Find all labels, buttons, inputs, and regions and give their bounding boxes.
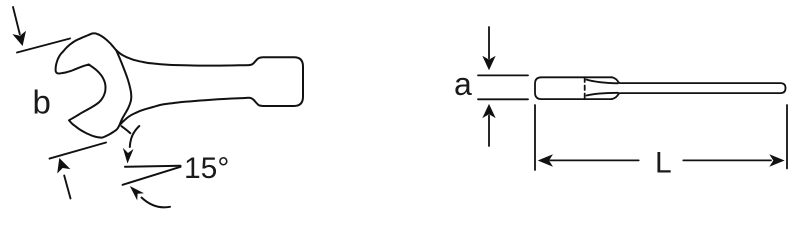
dimension b: upper arrow shaft — [13, 7, 20, 34]
dimension L: left arrowhead — [538, 154, 553, 167]
head-to-neck shoulder line — [116, 50, 131, 125]
wrench outline (front view, open-end slogging spanner) — [56, 33, 303, 137]
svg-text:a: a — [454, 66, 472, 102]
dimension L: left shaft — [550, 159, 639, 161]
inner stub line at neck fork — [122, 126, 131, 133]
15 deg angle: lower arrowhead — [130, 186, 144, 200]
15 deg angle: slanted line — [123, 167, 181, 185]
svg-text:15°: 15° — [184, 152, 229, 185]
dimension b: lower arrowhead — [57, 158, 70, 174]
side view: handle profile — [612, 77, 786, 99]
dimension a: upper arrow shaft — [488, 27, 490, 59]
dimension L: right extension line — [786, 105, 788, 169]
dimension a: upper extension line — [478, 74, 528, 76]
side view: upper taper line — [587, 80, 619, 84]
svg-text:b: b — [33, 83, 51, 120]
dimension a: lower arrow shaft — [488, 116, 490, 147]
dimension a: down arrowhead — [482, 56, 495, 70]
15 deg angle: lower curved arrow shaft — [142, 198, 171, 208]
dimension L: right arrowhead — [769, 154, 784, 167]
dimension b: lower extension line — [50, 143, 107, 159]
dimension L: right shaft — [683, 159, 771, 161]
dimension L: left extension line — [534, 105, 536, 170]
side view: lower taper line — [587, 93, 619, 96]
15 deg angle: upper arrowhead — [123, 148, 134, 164]
dimension b: lower arrow shaft — [64, 176, 70, 199]
dimension b: upper extension line — [17, 39, 70, 53]
15 deg angle: horizontal reference line — [125, 166, 181, 167]
side view: head profile — [535, 77, 612, 99]
15 deg angle: upper curved arrow shaft — [130, 126, 140, 147]
side view: dashed hidden edge — [584, 78, 586, 99]
dimension b: upper arrowhead — [12, 31, 26, 46]
svg-text:L: L — [655, 146, 672, 179]
dimension a: lower extension line — [478, 98, 528, 100]
dimension a: up arrowhead — [482, 104, 495, 118]
